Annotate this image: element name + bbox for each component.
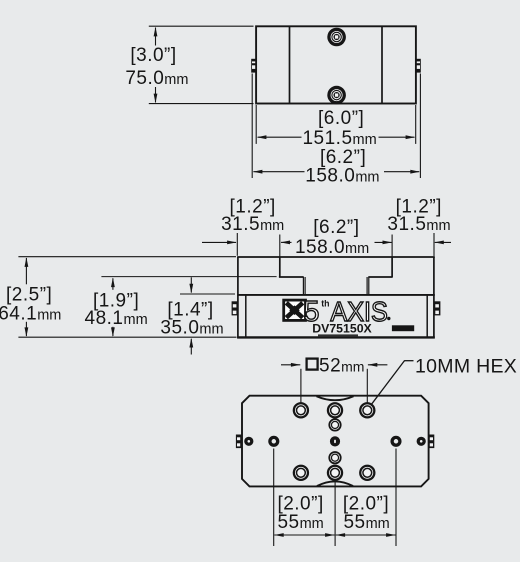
- svg-text:52mm: 52mm: [319, 355, 364, 376]
- svg-text:[6.2”]: [6.2”]: [313, 217, 359, 238]
- svg-text:10MM HEX: 10MM HEX: [415, 356, 517, 378]
- svg-text:55mm: 55mm: [343, 512, 389, 533]
- svg-text:48.1mm: 48.1mm: [85, 308, 148, 329]
- svg-text:55mm: 55mm: [277, 512, 323, 533]
- svg-text:158.0mm: 158.0mm: [305, 166, 379, 187]
- svg-text:[2.5”]: [2.5”]: [6, 285, 52, 306]
- svg-text:31.5mm: 31.5mm: [221, 214, 284, 235]
- svg-text:[3.0”]: [3.0”]: [130, 45, 176, 66]
- svg-text:35.0mm: 35.0mm: [160, 318, 223, 339]
- svg-text:75.0mm: 75.0mm: [125, 68, 188, 89]
- svg-text:151.5mm: 151.5mm: [302, 128, 376, 149]
- svg-text:[6.0”]: [6.0”]: [318, 108, 364, 129]
- svg-text:158.0mm: 158.0mm: [295, 237, 369, 258]
- svg-text:64.1mm: 64.1mm: [0, 303, 61, 324]
- svg-text:th: th: [321, 299, 329, 309]
- svg-text:31.5mm: 31.5mm: [387, 214, 450, 235]
- svg-text:DV75150X: DV75150X: [312, 321, 372, 335]
